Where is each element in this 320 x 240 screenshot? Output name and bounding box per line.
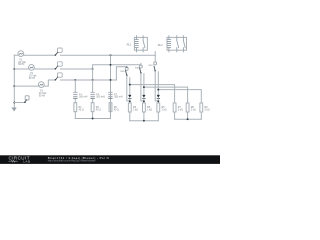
CircuitLab logo bbox=[9, 156, 31, 164]
wire L1 down bbox=[74, 99, 76, 103]
node bus C bbox=[157, 89, 159, 91]
wire LED1 cathode bbox=[129, 99, 131, 103]
wire SW1 out bbox=[61, 54, 156, 56]
wire bus C bbox=[158, 90, 201, 103]
switch SW4 dangling bbox=[14, 102, 24, 104]
switch SW6 (vertical) bbox=[140, 65, 143, 68]
svg-text:300 mH: 300 mH bbox=[79, 96, 88, 99]
node left rail bbox=[92, 118, 94, 120]
wire R7 down bbox=[174, 112, 176, 119]
LED D3 bbox=[157, 95, 160, 99]
wire V1 left bbox=[14, 54, 18, 56]
node right rail bbox=[187, 118, 189, 120]
voltage source V1 bbox=[18, 51, 24, 57]
wire SW5 down bbox=[127, 75, 130, 101]
svg-text:2 kΩ: 2 kΩ bbox=[191, 108, 196, 111]
node branch2 tee bbox=[92, 79, 94, 81]
wire L2 down bbox=[92, 99, 94, 103]
svg-text:40 Ω: 40 Ω bbox=[96, 108, 101, 111]
wire R2 down bbox=[92, 112, 94, 119]
voltage source V3 bbox=[38, 82, 44, 88]
svg-text:1 kΩ: 1 kΩ bbox=[133, 108, 138, 111]
wire LED rail bbox=[130, 120, 159, 122]
node J1 wire1 bbox=[110, 54, 112, 56]
wire SW3 out bbox=[61, 79, 76, 81]
node SW4 tee bbox=[13, 102, 15, 104]
wire R6 down bbox=[157, 112, 159, 121]
resistor R8 bbox=[186, 103, 189, 112]
wire jog to SW5 bbox=[116, 67, 126, 80]
resistor R9 bbox=[200, 103, 203, 112]
wire R3 down bbox=[110, 112, 112, 119]
wire LED3 cathode bbox=[157, 99, 159, 103]
svg-text:SW7: SW7 bbox=[148, 65, 153, 67]
switch SW7 (vertical) bbox=[154, 62, 157, 65]
node J2 wire2 bbox=[110, 64, 112, 66]
wire3 bbox=[75, 79, 116, 81]
svg-text:60 Hz: 60 Hz bbox=[29, 77, 36, 80]
voltage source V2 bbox=[29, 65, 35, 71]
svg-text:http://circuitlab.com/c/4qv2p/: http://circuitlab.com/c/4qv2p/3-heart-bl… bbox=[48, 159, 96, 163]
resistor R2 bbox=[91, 103, 94, 112]
wire V1 to SW1 bbox=[23, 54, 55, 56]
wire1 drop bbox=[154, 52, 156, 62]
resistor R3 bbox=[109, 103, 112, 112]
labels bbox=[18, 42, 209, 111]
wire SW2 drop bbox=[140, 63, 142, 65]
resistor R6 bbox=[157, 103, 160, 112]
wire2 jog up bbox=[93, 65, 141, 69]
svg-text:60 Hz: 60 Hz bbox=[39, 94, 46, 97]
resistor R4 bbox=[128, 103, 131, 112]
svg-text:2 kΩ: 2 kΩ bbox=[205, 108, 210, 111]
wire SW6 down bbox=[141, 73, 144, 101]
wire SW7 down bbox=[155, 71, 158, 101]
wire LED1 line bbox=[129, 78, 131, 95]
wire V2 to SW2 bbox=[34, 68, 55, 70]
footer bar bbox=[0, 155, 220, 164]
relay RL2 bbox=[167, 36, 187, 52]
wire V3 left bbox=[14, 85, 38, 87]
node J3 wire3 bbox=[110, 79, 112, 81]
inductor L3 bbox=[109, 92, 112, 98]
svg-text:300 mH: 300 mH bbox=[96, 96, 105, 99]
wire branch1 down bbox=[74, 80, 76, 92]
wire left rail bottom bbox=[75, 118, 110, 120]
svg-text:RL1: RL1 bbox=[127, 42, 132, 46]
svg-text:300 mH: 300 mH bbox=[114, 96, 123, 99]
svg-text:LAB: LAB bbox=[23, 159, 30, 163]
inductor L1 bbox=[74, 92, 77, 98]
node V3 rail tee bbox=[13, 85, 15, 87]
wire J1 down bbox=[110, 55, 112, 118]
switch SW1 bbox=[58, 48, 63, 52]
node branch1 tee bbox=[74, 79, 76, 81]
svg-text:1 kΩ: 1 kΩ bbox=[147, 108, 152, 111]
svg-text:40 Ω: 40 Ω bbox=[79, 108, 84, 111]
node V2 rail tee bbox=[13, 68, 15, 70]
wire R1 down bbox=[74, 112, 76, 119]
ground bbox=[12, 108, 17, 112]
wire left rail bbox=[13, 55, 15, 108]
switch SW5 (vertical) bbox=[125, 68, 128, 71]
wire L3 down bbox=[110, 99, 112, 103]
svg-text:60 Hz: 60 Hz bbox=[18, 63, 25, 66]
node wire2 branch bbox=[92, 68, 94, 70]
svg-text:SW5: SW5 bbox=[120, 71, 125, 73]
wire right rail bbox=[175, 118, 202, 120]
LED D2 bbox=[142, 95, 145, 99]
inductor L2 bbox=[91, 92, 94, 98]
resistor R7 bbox=[173, 103, 176, 112]
node bus A bbox=[129, 84, 131, 86]
wire R4 down bbox=[129, 112, 131, 121]
svg-text:1 kΩ: 1 kΩ bbox=[162, 108, 167, 111]
resistor R5 bbox=[143, 103, 146, 112]
resistor R1 bbox=[74, 103, 77, 112]
wire R5 down bbox=[143, 112, 145, 121]
wire LED2 cathode bbox=[143, 99, 145, 103]
wire branch2 upper bbox=[92, 69, 94, 80]
LED D1 bbox=[128, 95, 131, 99]
relay RL1 bbox=[134, 36, 147, 52]
wire SW2 out bbox=[61, 68, 93, 70]
wire V2 left bbox=[14, 68, 29, 70]
wire LED3 line bbox=[157, 72, 159, 95]
wire bus A bbox=[130, 85, 175, 103]
wire R9 down bbox=[200, 112, 202, 119]
switch SW2 bbox=[58, 62, 63, 66]
node bus B bbox=[143, 86, 145, 88]
node LED rail bbox=[143, 120, 145, 122]
svg-text:40 Ω: 40 Ω bbox=[114, 108, 119, 111]
wire V3 jog to SW3 bbox=[44, 80, 55, 86]
svg-text:2 kΩ: 2 kΩ bbox=[178, 108, 183, 111]
wire branch2 down bbox=[92, 80, 94, 92]
wire LED2 line bbox=[143, 74, 145, 95]
svg-text:RL2: RL2 bbox=[158, 43, 163, 47]
wire bus B bbox=[144, 87, 188, 103]
switch SW3 bbox=[58, 73, 63, 77]
wire R8 down bbox=[187, 112, 189, 119]
